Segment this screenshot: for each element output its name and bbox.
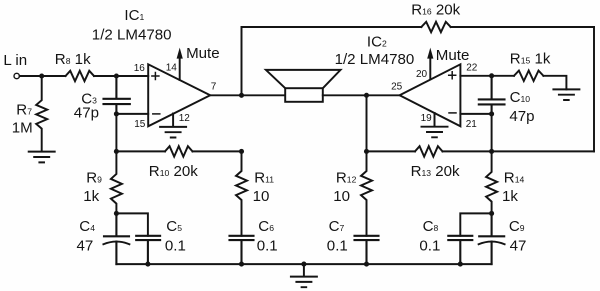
- ground IC1 pin 12: [160, 114, 186, 138]
- svg-text:R8 1k: R8 1k: [55, 51, 91, 68]
- svg-text:R10 20k: R10 20k: [149, 163, 198, 180]
- capacitor C10: [479, 76, 505, 114]
- svg-text:Mute: Mute: [436, 47, 470, 64]
- svg-text:21: 21: [466, 119, 478, 130]
- wire branch to C5: [116, 213, 147, 235]
- svg-text:10: 10: [253, 188, 270, 205]
- svg-text:R13 20k: R13 20k: [411, 163, 460, 180]
- wire branch to C8: [460, 213, 491, 235]
- svg-text:7: 7: [211, 81, 217, 92]
- svg-text:47: 47: [77, 238, 94, 255]
- junction C5 bottom: [145, 262, 150, 267]
- svg-text:Mute: Mute: [186, 45, 220, 62]
- svg-text:0.1: 0.1: [165, 238, 186, 255]
- svg-text:22: 22: [466, 63, 478, 74]
- wire feedback row to R10: [116, 150, 165, 152]
- wire top feedback right: [451, 26, 594, 28]
- svg-text:1k: 1k: [83, 188, 99, 205]
- junction C8 bottom: [458, 262, 463, 267]
- junction ground node: [301, 262, 306, 267]
- capacitor C4 polarized: [104, 213, 129, 264]
- svg-text:0.1: 0.1: [419, 238, 440, 255]
- svg-text:16: 16: [134, 63, 146, 74]
- ground after R15: [553, 89, 579, 100]
- wire L in to R8: [20, 75, 66, 77]
- junction C4/C5 node: [114, 211, 119, 216]
- junction pin22 node: [489, 73, 494, 78]
- wire pin22 node to R15: [492, 75, 514, 77]
- svg-text:47p: 47p: [509, 108, 534, 125]
- svg-text:0.1: 0.1: [327, 238, 348, 255]
- resistor R9: [111, 151, 122, 213]
- resistor R7: [36, 76, 47, 151]
- junction node input/R7: [39, 73, 44, 78]
- wire IC1 output: [210, 94, 241, 96]
- resistor R16: [421, 22, 450, 32]
- junction C6 bottom: [239, 262, 244, 267]
- junction feedback left node A: [114, 149, 119, 154]
- svg-text:0.1: 0.1: [257, 238, 278, 255]
- svg-text:R16 20k: R16 20k: [411, 1, 460, 18]
- mute arrow IC1 pin 14: [179, 58, 181, 80]
- wire bottom rail: [116, 263, 491, 265]
- svg-text:10: 10: [333, 188, 350, 205]
- svg-text:1M: 1M: [12, 120, 33, 137]
- wire top feedback left: [242, 26, 422, 28]
- junction speaker output node: [364, 93, 369, 98]
- ground IC2 pin 19: [422, 113, 448, 137]
- resistor R15: [514, 71, 543, 81]
- resistor R14: [486, 151, 497, 213]
- wire to IC1 pin 15: [116, 113, 148, 115]
- wire output node up to top rail: [241, 27, 243, 95]
- mute arrow IC2 pin 20: [429, 59, 431, 80]
- wire pin21 node down to feedback: [491, 114, 493, 151]
- ground under R7: [29, 152, 55, 163]
- op-amp IC2: [400, 64, 461, 126]
- svg-text:25: 25: [391, 82, 403, 93]
- capacitor C3: [104, 76, 130, 114]
- svg-text:19: 19: [421, 113, 433, 124]
- wire C3 node to feedback row: [115, 114, 117, 151]
- wire output node to speaker: [242, 94, 286, 96]
- svg-text:1/2 LM4780: 1/2 LM4780: [335, 51, 415, 68]
- svg-text:47p: 47p: [74, 104, 99, 121]
- junction output column feedback: [239, 149, 244, 154]
- wire IC2 pin 22: [460, 75, 491, 77]
- wire speaker to node: [323, 94, 367, 96]
- junction IC1 output node: [239, 93, 244, 98]
- svg-text:15: 15: [134, 119, 146, 130]
- svg-text:L in: L in: [3, 52, 27, 69]
- resistor R10: [165, 146, 193, 156]
- wire R10 to output column: [193, 150, 242, 152]
- wire R13 to pin21 column: [443, 150, 492, 152]
- capacitor C9 polarized: [479, 213, 504, 264]
- op-amp IC1: [148, 64, 210, 126]
- speaker LS: [266, 70, 341, 88]
- svg-text:12: 12: [179, 113, 191, 124]
- wire R13 row left: [367, 150, 416, 152]
- junction R12 column feedback: [364, 149, 369, 154]
- resistor R8: [66, 71, 95, 81]
- junction feedback right node: [489, 149, 494, 154]
- junction pin21 node: [489, 111, 494, 116]
- capacitor C8: [448, 236, 472, 264]
- wire node to IC2 output: [367, 94, 400, 96]
- wire right edge down: [593, 27, 595, 151]
- svg-text:14: 14: [166, 63, 178, 74]
- ground bottom rail: [291, 264, 317, 287]
- junction node C3 top: [114, 73, 119, 78]
- resistor R11: [236, 151, 247, 235]
- capacitor C7: [355, 236, 379, 264]
- junction C7 bottom: [364, 262, 369, 267]
- wire node down to R12: [366, 95, 368, 151]
- capacitor C6: [230, 236, 254, 264]
- svg-text:R15 1k: R15 1k: [510, 50, 551, 67]
- svg-text:20: 20: [416, 69, 428, 80]
- wire feedback to pin21 node: [492, 150, 594, 152]
- junction C8/C9 node: [489, 211, 494, 216]
- wire R15 to ground: [543, 76, 566, 90]
- resistor R13: [415, 146, 442, 156]
- wire IC2 pin 21: [460, 113, 491, 115]
- input terminal L in: [14, 73, 19, 78]
- svg-text:1/2 LM4780: 1/2 LM4780: [92, 26, 172, 43]
- junction node pin 15: [114, 111, 119, 116]
- svg-text:1k: 1k: [502, 188, 518, 205]
- resistor R12: [361, 151, 372, 235]
- capacitor C5: [136, 236, 160, 264]
- svg-text:47: 47: [510, 238, 527, 255]
- wire R8 to IC1 pin 16: [94, 75, 148, 77]
